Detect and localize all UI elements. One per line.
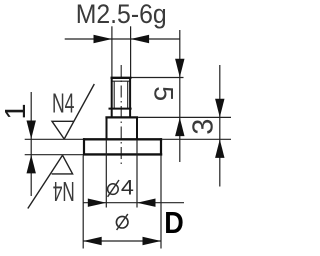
thread minor line left — [113, 81, 115, 108]
arrow diaD left — [83, 237, 102, 245]
thread chamfer line — [112, 80, 130, 82]
collar right edge — [136, 117, 138, 139]
surface finish symbol top: flag line — [64, 84, 94, 139]
svg-text:3: 3 — [188, 119, 220, 135]
dimension line 1 — [30, 92, 32, 196]
arrow M2.5 right — [131, 35, 150, 43]
dimension line 3 — [219, 65, 221, 187]
arrow M2.5 left — [94, 35, 113, 43]
surface finish symbol top: triangle — [52, 121, 74, 139]
svg-text:D: D — [164, 205, 184, 240]
disc bottom extension line left — [25, 154, 83, 156]
label dia symbol D — [116, 216, 128, 228]
thread minor line right — [127, 81, 129, 108]
arrow 3 bottom — [215, 139, 224, 158]
disc top edge — [83, 138, 162, 140]
extension line diaD left — [82, 156, 84, 249]
svg-text:N4: N4 — [52, 88, 75, 119]
disc right edge — [160, 138, 162, 155]
disc top extension line right — [162, 138, 231, 140]
arrow 1 bottom — [27, 155, 36, 174]
arrow diaD right — [143, 237, 162, 245]
surface finish symbol bottom: triangle — [52, 155, 73, 174]
dimension line 5 — [179, 30, 181, 162]
extension line right of thread — [130, 26, 132, 77]
centerline — [120, 65, 122, 165]
disc top extension line left — [25, 138, 84, 140]
stud top edge — [111, 77, 132, 79]
dimension line dia D — [83, 240, 161, 242]
svg-text:1: 1 — [0, 104, 32, 120]
stud right edge — [129, 77, 131, 118]
stud left edge — [111, 77, 113, 118]
arrow 5 top — [175, 59, 184, 78]
collar top extension line right — [138, 116, 231, 118]
surface finish symbol bottom: flag line — [28, 155, 63, 208]
arrow 5 bottom — [175, 118, 184, 137]
extension line diaD right — [160, 156, 162, 249]
arrow 3 top — [215, 99, 224, 118]
disc bottom edge — [83, 153, 162, 155]
extension line dia4 right — [136, 140, 138, 208]
arrow 1 top — [27, 121, 36, 140]
extension line left of thread — [111, 26, 113, 77]
svg-text:N4: N4 — [53, 176, 75, 207]
dimension line M2.5 — [65, 38, 180, 40]
svg-text:M2.5-6g: M2.5-6g — [76, 0, 167, 29]
dimension line dia 4 — [83, 202, 184, 204]
stud top extension line right — [132, 77, 184, 79]
svg-text:4: 4 — [121, 177, 134, 200]
arrow dia4 right — [137, 199, 156, 207]
label dia 4: diameter symbol — [108, 184, 119, 195]
svg-text:5: 5 — [149, 86, 179, 101]
thread end line — [109, 108, 132, 110]
collar left edge — [106, 117, 108, 139]
arrow dia4 left — [88, 199, 107, 207]
extension line dia4 left — [105, 140, 107, 208]
disc left edge — [83, 138, 85, 155]
collar top edge — [105, 116, 138, 118]
